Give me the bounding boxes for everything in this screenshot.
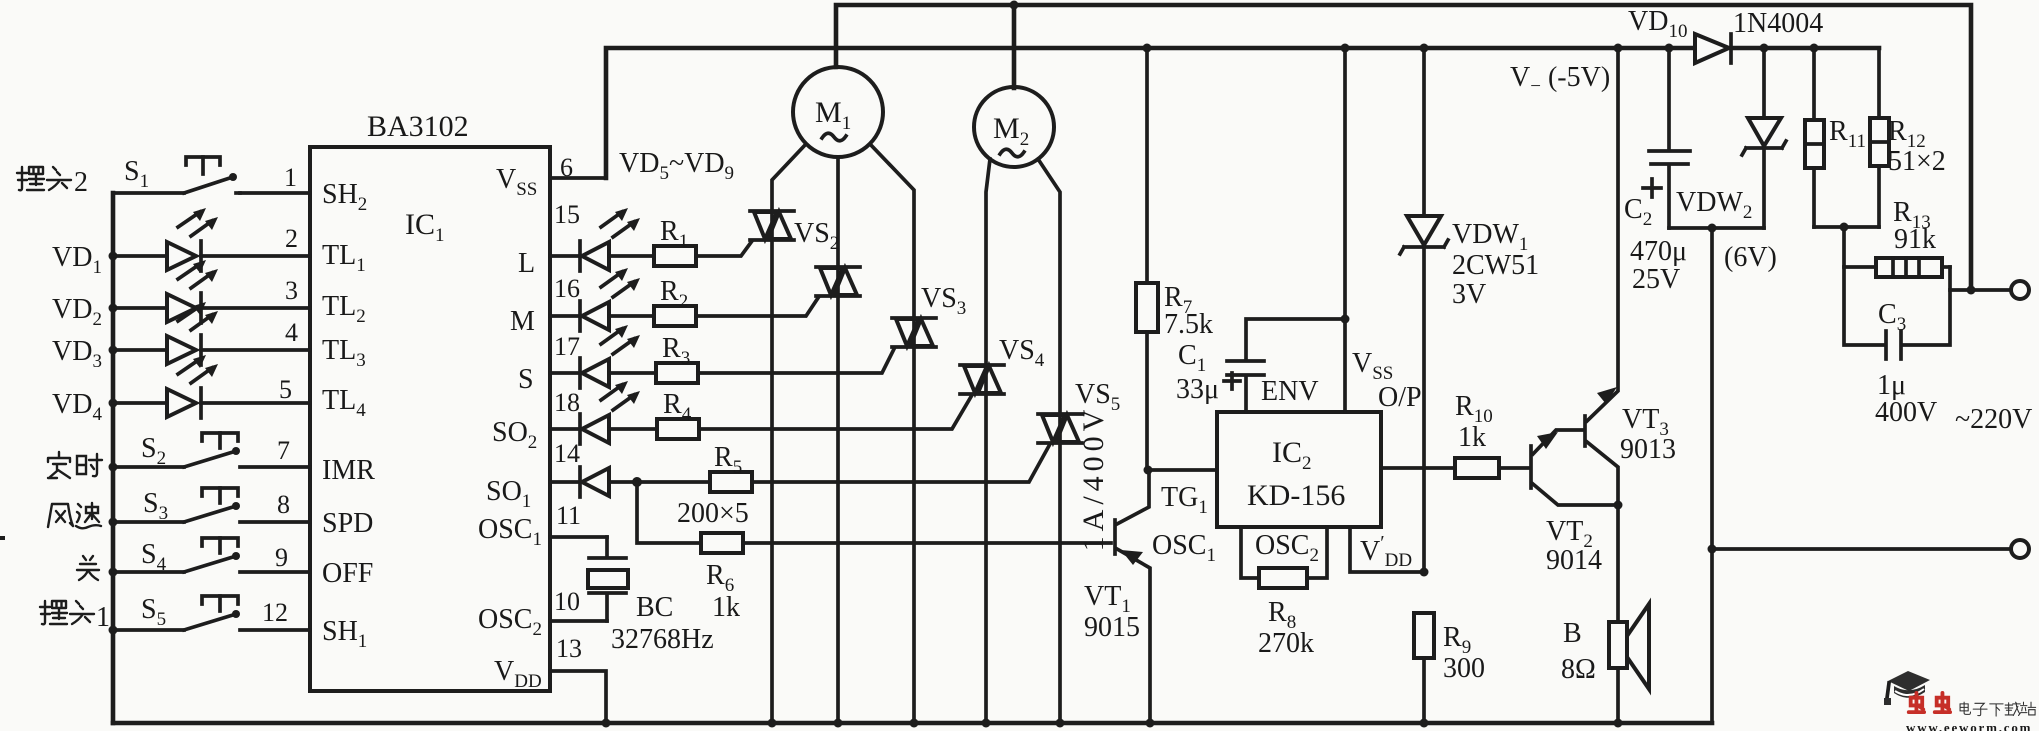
svg-text:OSC1: OSC1 — [478, 514, 542, 550]
resistor R1 — [654, 216, 696, 266]
switch S1 — [113, 157, 240, 193]
svg-text:www.eeworm.com: www.eeworm.com — [1906, 720, 2032, 731]
svg-text:8Ω: 8Ω — [1561, 654, 1596, 685]
svg-text:15: 15 — [554, 200, 580, 229]
label 摆头2 — [17, 167, 71, 190]
resistor R10 1k — [1455, 391, 1529, 478]
pin 9 OFF — [240, 543, 373, 589]
node bottom rail VS4 — [982, 719, 991, 728]
label VDW1 2CW51 3V — [1452, 219, 1539, 310]
svg-text:9014: 9014 — [1546, 545, 1602, 576]
node bottom rail triac2 — [834, 719, 843, 728]
resistor R2 — [654, 276, 696, 326]
svg-text:25V: 25V — [1632, 264, 1680, 295]
svg-text:OSC1: OSC1 — [1152, 530, 1216, 566]
wire M1 left leg — [772, 144, 806, 723]
node SO1 branch — [632, 477, 642, 487]
wire O/P output — [1381, 466, 1455, 470]
label 风速 — [48, 503, 101, 528]
label S2 — [141, 433, 166, 469]
svg-text:32768Hz: 32768Hz — [611, 624, 714, 655]
svg-text:9015: 9015 — [1084, 612, 1140, 643]
node VSS rail R11 — [1810, 44, 1819, 53]
switch S3 — [113, 488, 240, 522]
wire M2 drop from top rail — [1012, 5, 1017, 88]
wire to AC terminal 1 — [1950, 288, 2011, 292]
LED VD7 — [580, 325, 656, 388]
label VD2 — [52, 294, 102, 330]
label S3 — [143, 488, 168, 524]
wire R1 to VS2 gate — [696, 241, 752, 256]
switch S2 — [113, 433, 240, 467]
terminal AC top — [2011, 281, 2029, 299]
label VS4 — [999, 335, 1045, 371]
LED VD2 — [113, 260, 218, 323]
node terminal 2 branch — [1708, 545, 1717, 554]
svg-text:3: 3 — [285, 276, 298, 305]
capacitor C2 470u 25V — [1624, 48, 1690, 295]
label VD1 — [52, 242, 102, 278]
svg-text:KD-156: KD-156 — [1247, 479, 1345, 512]
diode VD10 1N4004 — [1628, 6, 1823, 63]
resistor R7 — [1136, 48, 1213, 470]
wire VT3 emitter chain to terminal 2 — [1712, 228, 2011, 723]
node bottom rail R9 — [1420, 719, 1429, 728]
zener VDW1 — [1400, 48, 1448, 572]
value label 1A/400V (vertical) — [1077, 405, 1110, 552]
pin 10 OSC2 — [478, 587, 607, 640]
crystal BC 32768Hz — [588, 537, 628, 621]
label ~220V — [1955, 404, 2032, 435]
transistor VT2 9014 — [1531, 430, 1616, 576]
node R13 branch — [1840, 223, 1849, 232]
svg-text:51×2: 51×2 — [1888, 146, 1946, 177]
label V'DD — [1360, 532, 1412, 571]
node C2-VDW2 branch — [1708, 224, 1717, 233]
pin 1 SH2 — [240, 163, 367, 215]
node junction M2 on top rail — [1010, 1, 1019, 10]
pin 12 SH1 — [240, 598, 367, 652]
wire V'DD pin — [1350, 527, 1424, 572]
label VD5~VD9 — [619, 148, 734, 184]
motor M1 — [793, 67, 883, 157]
motor M2 — [974, 87, 1054, 167]
node TG1 junction — [1144, 466, 1218, 475]
triac VS2 — [750, 211, 839, 254]
svg-text:270k: 270k — [1258, 628, 1314, 659]
resistor R5 — [677, 442, 752, 529]
watermark 虫虫 (red) — [1909, 693, 1950, 712]
LED VD5 — [580, 208, 654, 271]
svg-text:17: 17 — [554, 332, 580, 361]
svg-text:5: 5 — [279, 375, 292, 404]
wire M2 right leg — [1038, 159, 1060, 723]
triac VS5 — [1038, 414, 1082, 443]
pin 3 TL2 — [201, 276, 366, 327]
svg-text:14: 14 — [554, 439, 580, 468]
svg-text:M: M — [510, 306, 535, 337]
svg-text:13: 13 — [556, 634, 582, 663]
label VT1 9015 — [1084, 581, 1140, 643]
svg-text:2CW51: 2CW51 — [1452, 250, 1539, 281]
capacitor C1 — [1224, 319, 1345, 412]
LED VD3 — [113, 302, 218, 365]
watermark 电子下载站 — [1960, 702, 2036, 716]
svg-text:(6V): (6V) — [1724, 242, 1777, 273]
node VSS rail VDW1 — [1420, 44, 1429, 53]
pin 7 IMR — [240, 436, 375, 486]
LED VD4 — [113, 355, 218, 418]
svg-text:OFF: OFF — [322, 558, 373, 589]
label S4 — [141, 539, 167, 575]
wire VSS rail — [606, 48, 1879, 178]
svg-text:1k: 1k — [1458, 422, 1486, 453]
node VSS rail R7 — [1143, 44, 1152, 53]
label 定时 — [48, 452, 102, 478]
svg-text:1: 1 — [284, 163, 297, 192]
svg-text:O/P: O/P — [1378, 382, 1422, 413]
node AC terminal 1 junction — [1967, 286, 1976, 295]
svg-text:VDW2: VDW2 — [1676, 187, 1752, 223]
pin 6 VSS — [496, 153, 573, 200]
svg-text:V− (-5V): V− (-5V) — [1510, 62, 1610, 97]
transistor VT1 9015 — [1115, 470, 1150, 723]
label OSC1 (IC2 pin) — [1152, 530, 1216, 566]
node V'DD junction — [1420, 568, 1429, 577]
svg-text:8: 8 — [277, 490, 290, 519]
triac2 (unlabeled) — [816, 267, 860, 296]
svg-text:L: L — [518, 248, 535, 279]
node bottom rail VS3 — [910, 719, 919, 728]
svg-text:10: 10 — [554, 587, 580, 616]
op-amp U1 IC1 BA3102 body — [310, 147, 550, 691]
svg-text:400V: 400V — [1875, 397, 1937, 428]
resistor R11 — [1805, 48, 1866, 227]
svg-text:B: B — [1563, 618, 1582, 649]
svg-text:470μ: 470μ — [1630, 236, 1687, 267]
triac VS3 — [892, 318, 936, 347]
label VD3 — [52, 336, 102, 372]
wire R5 to VS5 gate — [752, 444, 1050, 482]
pin 17 S — [518, 332, 580, 395]
svg-text:2: 2 — [285, 224, 298, 253]
pin 16 M — [510, 274, 580, 337]
node bottom rail VDD — [602, 719, 611, 728]
wire SO1 to R6 — [637, 482, 701, 543]
watermark logo graduation cap — [1884, 671, 1930, 705]
wire R6 to VT1 base — [743, 541, 1111, 545]
node C1-VSS junction — [1341, 315, 1350, 324]
svg-text:1N4004: 1N4004 — [1733, 8, 1823, 39]
label VSS (IC2) — [1352, 348, 1393, 384]
svg-text:200×5: 200×5 — [677, 498, 749, 529]
resistor R9 — [1414, 613, 1485, 723]
capacitor C3 1u 400V — [1844, 267, 1950, 428]
svg-text:ENV: ENV — [1261, 376, 1319, 407]
label VS3 — [921, 283, 966, 319]
resistor R12 — [1870, 48, 1946, 227]
svg-text:91k: 91k — [1894, 224, 1936, 255]
label S1 — [124, 156, 149, 192]
node VSS rail VT3 collector — [1614, 44, 1623, 53]
node bottom rail speaker — [1614, 719, 1623, 728]
wire IC2 VSS pin — [1343, 48, 1347, 412]
transistor VT3 9013 — [1585, 48, 1676, 505]
watermark www.eeworm.com — [1906, 720, 2032, 731]
svg-text:BC: BC — [636, 592, 673, 623]
node bus VD1 — [109, 252, 118, 261]
label VS5 — [1075, 379, 1120, 415]
svg-text:7: 7 — [277, 436, 290, 465]
svg-text:BA3102: BA3102 — [367, 110, 469, 143]
svg-text:9: 9 — [275, 543, 288, 572]
value label BA3102 — [367, 110, 469, 143]
svg-text:4: 4 — [285, 318, 298, 347]
svg-text:6: 6 — [560, 153, 573, 182]
node bus S4 — [109, 568, 118, 577]
pin 5 TL4 — [201, 375, 366, 421]
wire left bus — [111, 193, 116, 723]
svg-text:1k: 1k — [712, 592, 740, 623]
wire R4 to VS4 gate — [699, 395, 972, 429]
label 摆头1 — [40, 601, 94, 624]
switch S4 — [113, 538, 240, 572]
label 关 — [77, 556, 99, 580]
pin 2 TL1 — [201, 224, 366, 276]
label C1 33u — [1176, 340, 1219, 405]
zener VDW2 — [1676, 48, 1786, 273]
node bus VD2 — [109, 304, 118, 313]
wire top AC rail — [836, 5, 1971, 290]
node VSS rail C2 — [1665, 44, 1674, 53]
wire R11-R12 bottom — [1814, 225, 1879, 229]
label S5 — [141, 594, 166, 630]
value label IC1 — [405, 208, 445, 246]
speaker B 8ohm — [1561, 604, 1649, 723]
pin 13 VDD — [494, 634, 606, 723]
svg-text:1A/400V: 1A/400V — [1077, 405, 1110, 552]
svg-text:7.5k: 7.5k — [1164, 309, 1213, 340]
value label BC 32768Hz — [611, 592, 714, 655]
triac VS4 — [960, 365, 1004, 394]
switch S5 — [113, 596, 240, 630]
pin 14 SO1 — [486, 439, 580, 512]
label ENV — [1261, 376, 1319, 407]
LED VD8 — [580, 381, 657, 444]
diode VD9 — [580, 467, 710, 497]
wire M1 middle leg — [836, 157, 840, 723]
label VD4 — [52, 389, 102, 425]
node VSS rail IC2 VSS — [1341, 44, 1350, 53]
svg-text:VD5~VD9: VD5~VD9 — [619, 148, 734, 184]
pin 8 SPD — [240, 490, 373, 539]
op-amp U2 IC2 KD-156 body — [1217, 412, 1381, 527]
svg-text:9013: 9013 — [1620, 434, 1676, 465]
wire M1 right leg — [870, 144, 914, 723]
wire bottom rail — [113, 721, 1712, 726]
wire R3 to VS3 gate — [698, 349, 894, 373]
svg-text:OSC2: OSC2 — [478, 604, 542, 640]
svg-text:IMR: IMR — [322, 455, 375, 486]
node VT2-VT3 emitter junction — [1614, 501, 1623, 623]
scan artifact left edge — [0, 536, 5, 540]
wire IC1 pin6 to VSS rail — [550, 176, 606, 180]
svg-text:18: 18 — [554, 388, 580, 417]
node VSS rail VDW2 — [1760, 44, 1769, 53]
resistor R13 91k — [1844, 197, 1950, 277]
LED VD6 — [580, 268, 654, 331]
resistor R8 — [1241, 527, 1327, 659]
wire C2-VDW2 bottom — [1669, 226, 1764, 230]
svg-text:16: 16 — [554, 274, 580, 303]
terminal AC bottom — [2011, 540, 2029, 558]
node bottom rail VS2 — [768, 719, 777, 728]
node bus S3 — [109, 518, 118, 527]
wire R2 to triac2 gate — [696, 298, 818, 316]
node bus VD3 — [109, 346, 118, 355]
resistor R3 — [656, 333, 698, 383]
svg-text:12: 12 — [262, 598, 288, 627]
resistor R4 — [657, 389, 699, 439]
node bottom rail VT1 emitter — [1146, 719, 1155, 728]
pin 18 SO2 — [492, 388, 580, 453]
wire M2 left leg — [986, 159, 990, 723]
LED VD1 — [113, 208, 218, 271]
svg-text:S: S — [518, 364, 534, 395]
label O/P — [1378, 382, 1422, 413]
node bus S2 — [109, 463, 118, 472]
svg-text:3V: 3V — [1452, 279, 1486, 310]
pin 4 TL3 — [201, 318, 366, 371]
label TG1 — [1161, 482, 1208, 518]
pin 11 OSC1 — [478, 501, 607, 550]
label OSC2 (IC2 pin) — [1255, 530, 1319, 566]
label V-(-5V) — [1510, 62, 1610, 97]
svg-text:33μ: 33μ — [1176, 374, 1219, 405]
svg-text:300: 300 — [1443, 653, 1485, 684]
svg-text:11: 11 — [556, 501, 581, 530]
svg-text:~220V: ~220V — [1955, 404, 2032, 435]
svg-text:OSC2: OSC2 — [1255, 530, 1319, 566]
svg-text:1: 1 — [96, 602, 110, 633]
node bus S5 — [109, 626, 118, 635]
node bottom rail VS5 — [1056, 719, 1065, 728]
resistor R6 — [701, 533, 743, 623]
svg-text:SPD: SPD — [322, 508, 373, 539]
svg-text:2: 2 — [74, 167, 88, 198]
node bus VD4 — [109, 399, 118, 408]
pin 15 L — [518, 200, 580, 279]
